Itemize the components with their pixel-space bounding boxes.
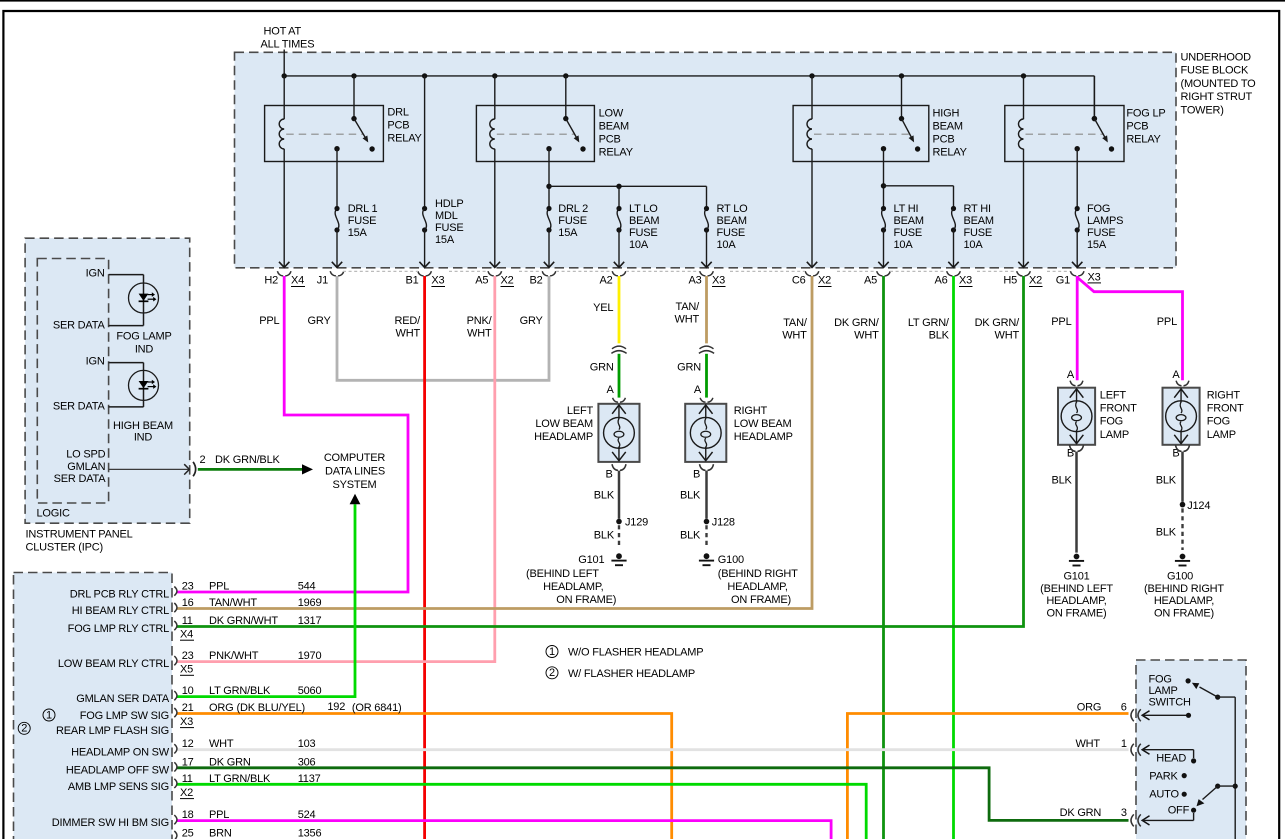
svg-text:PNK/: PNK/: [467, 315, 493, 327]
svg-text:LT GRN/BLK: LT GRN/BLK: [209, 685, 271, 697]
svg-text:B1: B1: [405, 275, 418, 287]
svg-text:WHT: WHT: [782, 330, 807, 342]
svg-text:G100: G100: [718, 554, 744, 566]
svg-text:HEADLAMP,: HEADLAMP,: [543, 581, 603, 593]
svg-text:HEADLAMP: HEADLAMP: [734, 431, 793, 443]
svg-text:X5: X5: [180, 664, 193, 676]
svg-text:B2: B2: [529, 275, 542, 287]
svg-text:DATA LINES: DATA LINES: [325, 465, 385, 477]
svg-text:1969: 1969: [298, 597, 322, 609]
svg-text:FUSE: FUSE: [894, 227, 923, 239]
svg-text:LT LO: LT LO: [629, 203, 658, 215]
svg-text:B: B: [606, 469, 613, 481]
svg-text:12: 12: [182, 738, 194, 750]
svg-text:FUSE: FUSE: [1087, 227, 1116, 239]
svg-text:BEAM: BEAM: [717, 215, 747, 227]
svg-text:A5: A5: [475, 275, 488, 287]
svg-text:15A: 15A: [1087, 239, 1107, 251]
svg-text:TAN/: TAN/: [783, 317, 808, 329]
svg-text:16: 16: [182, 597, 194, 609]
svg-text:BLK: BLK: [680, 490, 701, 502]
svg-text:X2: X2: [1029, 275, 1042, 287]
svg-text:(DK BLU/YEL): (DK BLU/YEL): [237, 702, 306, 714]
svg-text:DK GRN/: DK GRN/: [975, 317, 1021, 329]
svg-text:SWITCH: SWITCH: [1149, 697, 1191, 709]
svg-text:PPL: PPL: [1051, 316, 1071, 328]
svg-text:FOG: FOG: [1149, 674, 1172, 686]
svg-text:LAMP: LAMP: [1149, 685, 1178, 697]
svg-text:G1: G1: [1056, 275, 1070, 287]
svg-text:X3: X3: [431, 275, 444, 287]
svg-text:X4: X4: [180, 629, 193, 641]
svg-text:LEFT: LEFT: [1100, 390, 1127, 402]
svg-text:103: 103: [298, 738, 316, 750]
svg-text:BLK: BLK: [929, 330, 950, 342]
svg-text:G101: G101: [578, 554, 604, 566]
svg-text:FOG LMP RLY CTRL: FOG LMP RLY CTRL: [68, 623, 169, 635]
svg-text:IND: IND: [134, 432, 153, 444]
svg-text:X3: X3: [1088, 271, 1101, 283]
svg-text:FUSE: FUSE: [629, 227, 658, 239]
svg-text:SYSTEM: SYSTEM: [332, 479, 376, 491]
svg-text:DRL PCB RLY CTRL: DRL PCB RLY CTRL: [70, 589, 169, 601]
svg-text:BLK: BLK: [594, 529, 615, 541]
svg-text:RELAY: RELAY: [933, 147, 968, 159]
svg-text:18: 18: [182, 809, 194, 821]
svg-text:HIGH: HIGH: [933, 107, 960, 119]
svg-text:LO SPD: LO SPD: [66, 449, 105, 461]
svg-text:GRN: GRN: [677, 362, 701, 374]
svg-text:HI BEAM RLY CTRL: HI BEAM RLY CTRL: [72, 605, 169, 617]
svg-text:X2: X2: [180, 787, 193, 799]
svg-text:BLK: BLK: [1156, 527, 1177, 539]
svg-text:J129: J129: [625, 516, 648, 528]
svg-text:RELAY: RELAY: [599, 147, 634, 159]
svg-text:SER DATA: SER DATA: [54, 473, 107, 485]
svg-text:W/O FLASHER HEADLAMP: W/O FLASHER HEADLAMP: [568, 647, 703, 659]
svg-text:(BEHIND LEFT: (BEHIND LEFT: [1040, 583, 1113, 595]
svg-text:FUSE BLOCK: FUSE BLOCK: [1181, 65, 1250, 77]
svg-text:RT HI: RT HI: [964, 203, 991, 215]
svg-text:WHT: WHT: [209, 738, 234, 750]
svg-text:AMB LMP SENS SIG: AMB LMP SENS SIG: [68, 781, 169, 793]
svg-text:HEADLAMP: HEADLAMP: [534, 431, 593, 443]
svg-text:DK GRN/BLK: DK GRN/BLK: [215, 454, 280, 466]
svg-text:W/ FLASHER HEADLAMP: W/ FLASHER HEADLAMP: [568, 668, 695, 680]
svg-text:SER DATA: SER DATA: [53, 401, 106, 413]
svg-text:BEAM: BEAM: [599, 120, 629, 132]
svg-text:1: 1: [549, 646, 555, 658]
svg-text:LOGIC: LOGIC: [37, 507, 70, 519]
svg-text:RED/: RED/: [395, 315, 422, 327]
svg-text:J128: J128: [712, 516, 735, 528]
svg-text:FUSE: FUSE: [717, 227, 746, 239]
svg-text:BEAM: BEAM: [629, 215, 659, 227]
svg-text:J124: J124: [1187, 500, 1210, 512]
svg-text:FOG: FOG: [1207, 416, 1230, 428]
svg-text:LT GRN/BLK: LT GRN/BLK: [209, 773, 271, 785]
svg-text:2: 2: [200, 454, 206, 466]
svg-text:PCB: PCB: [599, 134, 621, 146]
svg-text:1137: 1137: [298, 773, 321, 785]
svg-text:DK GRN: DK GRN: [1060, 807, 1102, 819]
svg-text:IGN: IGN: [86, 268, 105, 280]
svg-text:15A: 15A: [348, 227, 368, 239]
svg-text:X2: X2: [501, 275, 514, 287]
svg-text:PNK/WHT: PNK/WHT: [209, 650, 259, 662]
svg-text:G101: G101: [1063, 571, 1089, 583]
svg-text:(BEHIND LEFT: (BEHIND LEFT: [526, 568, 599, 580]
svg-text:BRN: BRN: [209, 828, 232, 839]
svg-text:TAN/WHT: TAN/WHT: [209, 597, 257, 609]
svg-text:COMPUTER: COMPUTER: [324, 452, 386, 464]
svg-text:J1: J1: [317, 275, 328, 287]
svg-text:10A: 10A: [964, 239, 984, 251]
svg-text:(MOUNTED TO: (MOUNTED TO: [1181, 78, 1257, 90]
svg-text:BLK: BLK: [1156, 475, 1177, 487]
svg-text:ORG: ORG: [209, 702, 233, 714]
svg-text:LAMP: LAMP: [1207, 429, 1236, 441]
svg-text:RT LO: RT LO: [717, 203, 749, 215]
svg-text:23: 23: [182, 581, 194, 593]
svg-text:15A: 15A: [558, 227, 578, 239]
svg-text:DK GRN: DK GRN: [209, 756, 251, 768]
svg-text:LT GRN/: LT GRN/: [908, 317, 950, 329]
svg-text:PCB: PCB: [933, 134, 955, 146]
svg-text:PCB: PCB: [1126, 120, 1148, 132]
svg-text:544: 544: [298, 581, 316, 593]
svg-text:ON FRAME): ON FRAME): [556, 594, 616, 606]
svg-text:LEFT: LEFT: [567, 405, 594, 417]
svg-text:FRONT: FRONT: [1207, 403, 1244, 415]
svg-text:2: 2: [549, 667, 555, 679]
svg-text:H2: H2: [264, 275, 278, 287]
svg-text:PARK: PARK: [1149, 771, 1178, 783]
svg-text:FOG LMP SW SIG: FOG LMP SW SIG: [80, 710, 169, 722]
svg-text:DRL: DRL: [387, 106, 408, 118]
svg-text:A: A: [1067, 369, 1075, 381]
svg-text:524: 524: [298, 809, 316, 821]
svg-text:WHT: WHT: [396, 328, 421, 340]
svg-text:IGN: IGN: [86, 356, 105, 368]
svg-text:A: A: [694, 384, 702, 396]
svg-text:X2: X2: [818, 275, 831, 287]
svg-text:H5: H5: [1003, 275, 1017, 287]
svg-text:10A: 10A: [717, 239, 737, 251]
svg-text:UNDERHOOD: UNDERHOOD: [1181, 52, 1252, 64]
svg-text:11: 11: [182, 773, 193, 785]
svg-text:LOW BEAM: LOW BEAM: [734, 418, 792, 430]
svg-text:6: 6: [1121, 702, 1127, 714]
svg-text:192: 192: [327, 701, 345, 713]
svg-text:HEADLAMP OFF SW: HEADLAMP OFF SW: [66, 764, 170, 776]
svg-text:IND: IND: [135, 344, 154, 356]
svg-text:X3: X3: [712, 275, 725, 287]
svg-text:DRL 1: DRL 1: [348, 203, 378, 215]
svg-text:RIGHT STRUT: RIGHT STRUT: [1181, 91, 1253, 103]
svg-text:FOG: FOG: [1087, 203, 1110, 215]
svg-text:PPL: PPL: [209, 809, 229, 821]
svg-text:ON FRAME): ON FRAME): [731, 594, 791, 606]
svg-text:OFF: OFF: [1168, 805, 1190, 817]
svg-text:A: A: [606, 384, 614, 396]
svg-text:BEAM: BEAM: [933, 120, 963, 132]
svg-text:BEAM: BEAM: [964, 215, 994, 227]
svg-text:10: 10: [182, 685, 194, 697]
svg-text:ON FRAME): ON FRAME): [1047, 608, 1107, 620]
svg-text:FUSE: FUSE: [435, 222, 464, 234]
svg-text:RELAY: RELAY: [387, 133, 422, 145]
svg-text:BEAM: BEAM: [894, 215, 924, 227]
svg-text:WHT: WHT: [675, 314, 700, 326]
svg-text:GMLAN SER DATA: GMLAN SER DATA: [76, 693, 170, 705]
svg-text:2: 2: [21, 723, 27, 735]
svg-text:TAN/: TAN/: [676, 301, 701, 313]
svg-text:1356: 1356: [298, 828, 322, 839]
svg-text:HOT AT: HOT AT: [264, 26, 302, 38]
svg-text:A: A: [1172, 369, 1180, 381]
svg-text:RIGHT: RIGHT: [1207, 390, 1241, 402]
svg-text:B: B: [693, 469, 700, 481]
svg-text:X3: X3: [959, 275, 972, 287]
svg-text:3: 3: [1121, 807, 1127, 819]
svg-text:MDL: MDL: [435, 210, 458, 222]
svg-text:25: 25: [182, 828, 194, 839]
svg-text:ALL TIMES: ALL TIMES: [261, 39, 315, 51]
svg-text:1970: 1970: [298, 650, 322, 662]
svg-text:HEADLAMP,: HEADLAMP,: [727, 581, 787, 593]
svg-text:LT HI: LT HI: [894, 203, 919, 215]
svg-text:15A: 15A: [435, 234, 455, 246]
svg-text:REAR LMP FLASH SIG: REAR LMP FLASH SIG: [56, 725, 169, 737]
svg-text:G100: G100: [1167, 571, 1193, 583]
svg-text:21: 21: [182, 702, 194, 714]
svg-text:A3: A3: [688, 275, 701, 287]
svg-text:X3: X3: [180, 716, 193, 728]
svg-text:YEL: YEL: [593, 302, 613, 314]
svg-text:LOW BEAM RLY CTRL: LOW BEAM RLY CTRL: [58, 658, 169, 670]
svg-text:HEADLAMP ON SW: HEADLAMP ON SW: [71, 746, 170, 758]
svg-text:SER DATA: SER DATA: [53, 319, 106, 331]
svg-text:17: 17: [182, 756, 194, 768]
svg-text:LOW BEAM: LOW BEAM: [535, 418, 593, 430]
svg-text:HIGH BEAM: HIGH BEAM: [113, 420, 173, 432]
svg-text:FRONT: FRONT: [1100, 403, 1137, 415]
svg-text:23: 23: [182, 650, 194, 662]
svg-text:DK GRN/WHT: DK GRN/WHT: [209, 615, 278, 627]
svg-text:1: 1: [46, 709, 52, 721]
svg-text:C6: C6: [792, 275, 806, 287]
svg-text:GRN: GRN: [590, 362, 614, 374]
svg-text:HEAD: HEAD: [1156, 753, 1186, 765]
svg-text:WHT: WHT: [854, 330, 879, 342]
svg-text:DIMMER SW HI BM SIG: DIMMER SW HI BM SIG: [52, 817, 169, 829]
svg-text:PPL: PPL: [259, 315, 279, 327]
svg-text:FOG: FOG: [1100, 416, 1123, 428]
svg-text:10A: 10A: [894, 239, 914, 251]
svg-text:CLUSTER (IPC): CLUSTER (IPC): [26, 542, 103, 554]
svg-text:10A: 10A: [629, 239, 649, 251]
svg-text:LOW: LOW: [599, 107, 624, 119]
svg-text:TOWER): TOWER): [1181, 104, 1224, 116]
svg-text:FUSE: FUSE: [964, 227, 993, 239]
svg-text:INSTRUMENT PANEL: INSTRUMENT PANEL: [26, 529, 133, 541]
svg-text:A2: A2: [599, 275, 612, 287]
svg-text:DRL 2: DRL 2: [558, 203, 588, 215]
svg-text:(BEHIND RIGHT: (BEHIND RIGHT: [718, 568, 798, 580]
svg-text:HEADLAMP,: HEADLAMP,: [1046, 595, 1106, 607]
svg-text:(OR 6841): (OR 6841): [352, 702, 402, 714]
svg-text:ON FRAME): ON FRAME): [1154, 608, 1214, 620]
svg-text:FUSE: FUSE: [348, 215, 377, 227]
svg-text:306: 306: [298, 756, 316, 768]
svg-text:HDLP: HDLP: [435, 198, 464, 210]
svg-text:FOG LP: FOG LP: [1126, 107, 1165, 119]
svg-text:GRY: GRY: [308, 315, 332, 327]
svg-text:RIGHT: RIGHT: [734, 405, 768, 417]
svg-text:RELAY: RELAY: [1126, 134, 1161, 146]
svg-text:LAMPS: LAMPS: [1087, 215, 1123, 227]
svg-text:WHT: WHT: [467, 328, 492, 340]
svg-text:ORG: ORG: [1077, 702, 1101, 714]
svg-text:1: 1: [1121, 738, 1127, 750]
svg-text:PPL: PPL: [209, 581, 229, 593]
svg-text:GMLAN: GMLAN: [67, 461, 105, 473]
svg-text:5060: 5060: [298, 685, 322, 697]
svg-text:GRY: GRY: [520, 315, 544, 327]
svg-text:FOG LAMP: FOG LAMP: [116, 331, 171, 343]
svg-text:PPL: PPL: [1157, 316, 1177, 328]
svg-text:LAMP: LAMP: [1100, 429, 1129, 441]
svg-text:BLK: BLK: [594, 490, 615, 502]
svg-text:DK GRN/: DK GRN/: [834, 317, 880, 329]
svg-text:PCB: PCB: [387, 119, 409, 131]
svg-text:1317: 1317: [298, 615, 322, 627]
svg-text:BLK: BLK: [1051, 475, 1072, 487]
svg-text:(BEHIND RIGHT: (BEHIND RIGHT: [1144, 583, 1224, 595]
svg-text:HEADLAMP,: HEADLAMP,: [1154, 595, 1214, 607]
svg-text:AUTO: AUTO: [1149, 789, 1179, 801]
svg-text:A5: A5: [864, 275, 877, 287]
svg-text:11: 11: [182, 615, 193, 627]
svg-text:BLK: BLK: [680, 529, 701, 541]
svg-text:WHT: WHT: [995, 330, 1020, 342]
svg-text:FUSE: FUSE: [558, 215, 587, 227]
svg-text:WHT: WHT: [1075, 738, 1100, 750]
svg-text:A6: A6: [934, 275, 947, 287]
svg-text:X4: X4: [291, 275, 304, 287]
